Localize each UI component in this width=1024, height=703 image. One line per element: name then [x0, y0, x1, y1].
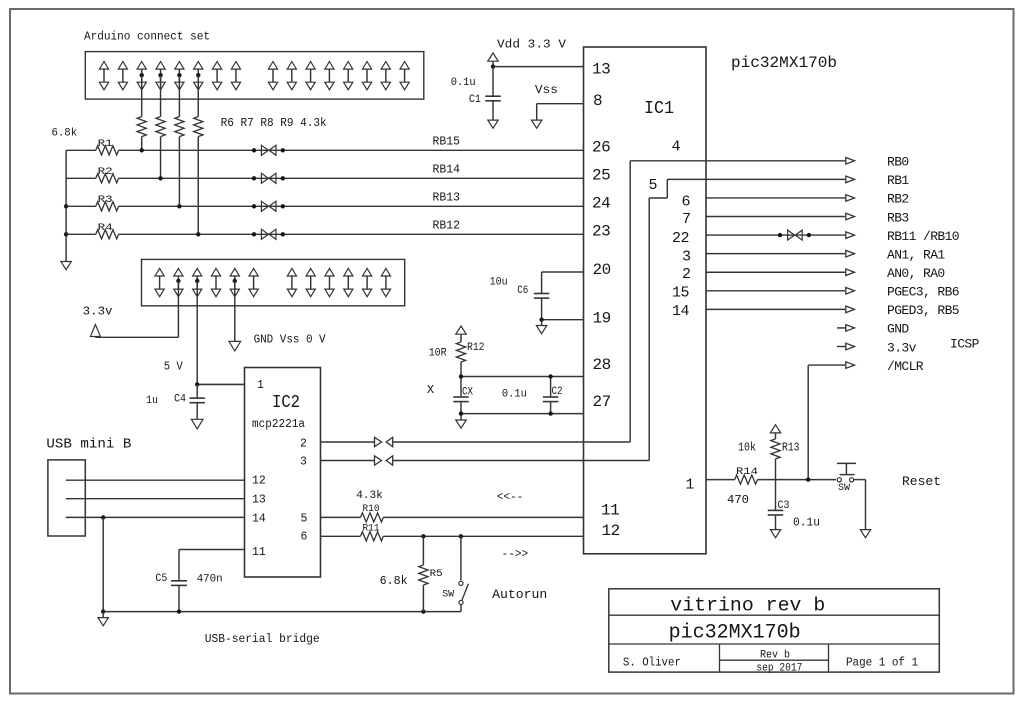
wire net PGEC3, RB6 [706, 290, 845, 292]
ground symbol below reset switch [860, 530, 870, 538]
label 470 (R14 value) [727, 494, 749, 507]
wire row RB14 to IC1 [119, 177, 584, 179]
label IC2 [272, 393, 300, 413]
svg-text:5 V: 5 V [164, 360, 184, 374]
junction node Vdd/C1 [491, 64, 495, 68]
connector J1 Arduino header box [85, 52, 424, 100]
wire IC1 pin 20 [542, 271, 584, 273]
net arrow PGEC3, RB6 [846, 287, 855, 294]
svg-text:Rev b: Rev b [760, 649, 790, 661]
svg-text:19: 19 [593, 310, 611, 328]
label C3 [778, 500, 790, 512]
title text Page 1 of 1 [846, 655, 918, 669]
label R13 [782, 442, 800, 455]
label ICSP [950, 337, 980, 352]
svg-text:3: 3 [682, 248, 691, 265]
wire left vertical bus [65, 150, 67, 261]
ground symbol below C1 [488, 120, 498, 128]
svg-text:SW: SW [838, 483, 850, 494]
wire J2 pin5 to ground [234, 281, 236, 342]
junction dot USB ground [101, 515, 105, 519]
wire net AN1, RA1 [706, 253, 845, 255]
svg-text:12: 12 [252, 475, 266, 488]
svg-text:13: 13 [252, 494, 266, 507]
ESD diode pair on RB12 row [252, 229, 285, 239]
label USB-serial bridge [205, 632, 320, 646]
ground symbol below pin 19 [536, 320, 546, 334]
label 470n (C5 value) [197, 574, 223, 586]
IC IC1 pic32 body [584, 47, 707, 554]
svg-text:Vss: Vss [535, 83, 558, 97]
label IC1 [644, 99, 674, 119]
svg-text:RB15: RB15 [433, 135, 461, 148]
resistor R4 horizontal [66, 222, 119, 239]
net arrow RB2 [846, 195, 855, 202]
resistor R5 6.8k vertical [419, 536, 428, 611]
junction dots left bus [64, 204, 68, 236]
svg-text:R10: R10 [363, 503, 380, 515]
svg-text:pic32MX170b: pic32MX170b [669, 622, 801, 645]
IC IC2 mcp2221a body [245, 368, 321, 578]
ESD diode pair on RB13 row [252, 201, 285, 211]
svg-text:C1: C1 [469, 94, 481, 106]
resistor R8 4.3k vertical [175, 75, 184, 206]
label pic32MX170b (top) [731, 54, 837, 72]
svg-text:5: 5 [301, 513, 308, 526]
svg-text:/MCLR: /MCLR [887, 359, 924, 374]
net arrow RB1 [846, 176, 855, 183]
wire ground bus [103, 611, 461, 613]
wire net RB11 /RB10 [706, 234, 845, 236]
svg-text:2: 2 [682, 266, 691, 283]
label R6 R7 R8 R9 4.3k [221, 116, 327, 130]
resistor R10 on pin5 line [321, 513, 584, 522]
svg-text:10R: 10R [429, 347, 447, 359]
svg-text:PGED3, RB5: PGED3, RB5 [887, 303, 959, 318]
svg-text:RB11 /RB10: RB11 /RB10 [887, 229, 959, 244]
wire net GND stub [837, 327, 846, 329]
svg-text:R11: R11 [363, 523, 380, 535]
label 10k (R13 value) [738, 442, 756, 455]
svg-text:RB2: RB2 [887, 192, 909, 207]
wire pin 4 vertical to IC2 pin 2 [629, 161, 631, 442]
title text sep 2017 [756, 663, 802, 675]
svg-text:8: 8 [593, 92, 602, 110]
svg-text:470: 470 [727, 494, 749, 507]
svg-text:Reset: Reset [902, 474, 941, 489]
title text pic32MX170b [669, 622, 801, 645]
label Reset [902, 474, 941, 489]
resistor R11 on pin6 line [321, 532, 584, 541]
svg-text:RB3: RB3 [887, 210, 909, 225]
svg-text:6.8k: 6.8k [380, 575, 408, 588]
svg-text:Autorun: Autorun [492, 587, 547, 602]
svg-text:4.3k: 4.3k [356, 490, 383, 502]
svg-text:3.3v: 3.3v [83, 306, 113, 319]
label 10u (C6 value) [490, 276, 508, 288]
resistor R3 horizontal [66, 194, 119, 211]
wire J2 pin2 to 3.3v arrow [95, 281, 178, 337]
label Arduino connect set [84, 30, 210, 44]
svg-text:sep 2017: sep 2017 [756, 663, 802, 675]
svg-text:24: 24 [592, 195, 610, 213]
svg-text:0.1u: 0.1u [793, 517, 820, 530]
resistor R7 4.3k vertical [156, 75, 165, 178]
svg-text:R2: R2 [98, 166, 113, 178]
net label AN1, RA1 [887, 247, 945, 262]
label C2 [552, 386, 563, 398]
svg-text:mcp2221a: mcp2221a [252, 418, 305, 431]
svg-text:10k: 10k [738, 442, 756, 455]
ground symbol below CX [456, 414, 466, 429]
svg-text:0.1u: 0.1u [451, 77, 476, 89]
wire IC2 pin 3 to IC1 pin 5 [321, 460, 650, 462]
label 6.8k (R5 value) [380, 575, 408, 588]
net arrow RB0 [846, 158, 855, 165]
label Vss [535, 83, 558, 97]
svg-text:4: 4 [672, 139, 681, 156]
net label RB0 [887, 155, 909, 170]
svg-text:pic32MX170b: pic32MX170b [731, 54, 837, 72]
label 0.1u (C3 value) [793, 517, 820, 530]
svg-text:S. Oliver: S. Oliver [623, 655, 681, 669]
svg-text:11: 11 [252, 546, 266, 559]
net label RB14 [433, 163, 461, 176]
wire net PGED3, RB5 [706, 308, 845, 310]
ESD diode pair on RB14 row [252, 173, 285, 183]
svg-text:vitrino rev b: vitrino rev b [670, 595, 825, 617]
svg-text:GND: GND [887, 322, 909, 337]
net arrow PGED3, RB5 [846, 306, 855, 313]
wire net 3.3v stub [837, 346, 846, 348]
svg-text:IC2: IC2 [272, 393, 300, 413]
svg-text:11: 11 [601, 502, 619, 520]
capacitor C4 1u [189, 384, 205, 419]
svg-text:26: 26 [592, 139, 610, 157]
svg-text:USB-serial bridge: USB-serial bridge [205, 632, 320, 646]
label SW (autorun) [442, 589, 454, 600]
resistor R9 4.3k vertical [194, 75, 203, 234]
label 5 V [164, 360, 184, 374]
wire row RB15 to IC1 [119, 149, 584, 151]
wire IC1 pin 8 to Vss ground [537, 104, 584, 120]
svg-text:6: 6 [301, 531, 308, 544]
svg-text:3: 3 [300, 456, 307, 469]
label 4.3k (R10/R11 value) [356, 490, 383, 502]
junction dot R9 to row [196, 232, 200, 236]
net label 3.3v [887, 340, 917, 355]
wire reset switch to ground [854, 480, 866, 530]
svg-text:5: 5 [649, 177, 658, 194]
junction dot R8 to row [177, 204, 181, 208]
title text vitrino rev b [670, 595, 825, 617]
ground symbol Vss [532, 120, 542, 128]
net label /MCLR [887, 359, 924, 374]
capacitor C1 0.1u [485, 67, 501, 121]
junction dots pins 28/27 wires [459, 374, 553, 416]
svg-text:14: 14 [252, 513, 266, 526]
net arrow /MCLR [846, 362, 855, 369]
svg-text:R4: R4 [98, 222, 113, 234]
wire IC1 pin 28 [461, 376, 584, 378]
label R12 [467, 342, 485, 354]
net label PGEC3, RB6 [887, 285, 959, 300]
label R10 [363, 503, 380, 515]
svg-text:6: 6 [682, 194, 691, 211]
net arrow GND [846, 325, 855, 332]
net label PGED3, RB5 [887, 303, 959, 318]
label C5 [155, 573, 167, 585]
wire IC2 pin 11 to C5 [179, 550, 245, 581]
svg-text:R3: R3 [98, 194, 113, 206]
junction dot R6 to row [140, 148, 144, 152]
svg-text:20: 20 [593, 261, 611, 279]
svg-text:Vdd 3.3 V: Vdd 3.3 V [497, 37, 567, 51]
svg-text:R6 R7 R8 R9 4.3k: R6 R7 R8 R9 4.3k [221, 116, 327, 130]
wire IC1 pin 1 to R14 [706, 479, 735, 481]
connector J1 pins (bidirectional arrows) [99, 62, 409, 90]
resistor R6 4.3k vertical [137, 75, 146, 150]
net arrow 3.3v [846, 343, 855, 350]
label CX [462, 386, 473, 398]
label 0.1u (C1 value) [451, 77, 476, 89]
svg-text:1: 1 [257, 379, 264, 392]
net label RB11 /RB10 [887, 229, 959, 244]
capacitor C3 0.1u [768, 480, 784, 530]
svg-text:470n: 470n [197, 574, 223, 586]
junction dots pin6 line [421, 534, 463, 538]
wire IC1 pin 27 [461, 413, 584, 415]
wire net AN0, RA0 [706, 271, 845, 273]
label SW (reset) [838, 483, 850, 494]
svg-text:C6: C6 [517, 285, 528, 297]
svg-text:SW: SW [442, 589, 454, 600]
net label GND [887, 322, 909, 337]
svg-text:R12: R12 [467, 342, 485, 354]
net label RB15 [433, 135, 461, 148]
svg-text:<<--: <<-- [497, 490, 524, 504]
junction dots ground bus [101, 609, 426, 613]
svg-text:13: 13 [592, 61, 610, 79]
label USB mini B [46, 436, 131, 452]
svg-text:C5: C5 [155, 573, 167, 585]
wire to autorun switch [460, 536, 462, 580]
svg-text:Arduino connect set: Arduino connect set [84, 30, 210, 44]
net label AN0, RA0 [887, 266, 945, 281]
label 6.8k (R1-R4 value) [52, 128, 78, 140]
wire IC1 pin 19 [542, 319, 584, 321]
IC1 left pin numbers [592, 61, 620, 540]
svg-text:7: 7 [682, 211, 691, 228]
ground symbol GND Vss [229, 341, 241, 351]
label Autorun [492, 587, 547, 602]
resistor R1 horizontal [66, 138, 119, 155]
svg-text:IC1: IC1 [644, 99, 674, 119]
capacitor CX [453, 377, 469, 414]
ground symbol below C4 [191, 419, 203, 429]
net label RB3 [887, 210, 909, 225]
ground symbol left bus [61, 262, 71, 270]
wire USB GND to IC2 pin 14 [66, 516, 245, 518]
net label RB1 [887, 173, 909, 188]
resistor R2 horizontal [66, 166, 119, 183]
svg-text:C3: C3 [778, 500, 790, 512]
svg-text:-->>: -->> [502, 547, 528, 561]
junction dots on J2 pins 2,3,5 [176, 279, 237, 283]
switch SW autorun [459, 581, 469, 611]
net arrow RB11 /RB10 [846, 232, 855, 239]
resistor R13 10k vertical [770, 425, 780, 480]
svg-text:R1: R1 [98, 138, 113, 150]
svg-text:RB14: RB14 [433, 163, 461, 176]
data direction arrows pin 2 line [375, 437, 393, 446]
svg-text:RB12: RB12 [433, 219, 461, 232]
svg-text:AN0, RA0: AN0, RA0 [887, 266, 945, 281]
net label RB12 [433, 219, 461, 232]
ESD diode pair on RB11 row [778, 230, 811, 240]
resistor R14 470 [735, 475, 836, 484]
net arrow AN1, RA1 [846, 250, 855, 257]
svg-text:X: X [427, 383, 434, 397]
wire net /MCLR [808, 365, 845, 480]
net arrow AN0, RA0 [846, 269, 855, 276]
svg-text:25: 25 [592, 167, 610, 185]
label 3.3v [83, 306, 113, 319]
title text S. Oliver [623, 655, 681, 669]
connector J2 header box [142, 259, 405, 305]
label 10R (R12 value) [429, 347, 447, 359]
wire net RB2 [706, 197, 845, 199]
svg-text:Page 1 of 1: Page 1 of 1 [846, 655, 918, 669]
wire row RB13 to IC1 [119, 205, 584, 207]
label 1u (C4 value) [146, 395, 158, 407]
svg-text:ICSP: ICSP [950, 337, 980, 352]
net label RB13 [433, 191, 461, 204]
junction dots on J1 pins 3-6 [140, 73, 201, 77]
junction node MCLR [806, 477, 810, 481]
switch SW reset pushbutton [837, 463, 856, 482]
wire USB D+ to IC2 pin 12 [66, 479, 245, 481]
junction node 5V/C4 [195, 382, 199, 386]
svg-text:0.1u: 0.1u [502, 389, 527, 401]
svg-text:1u: 1u [146, 395, 158, 407]
svg-text:AN1, RA1: AN1, RA1 [887, 247, 945, 262]
svg-text:RB1: RB1 [887, 173, 909, 188]
label R5 [430, 568, 443, 580]
capacitor C2 [543, 377, 559, 414]
svg-text:23: 23 [592, 223, 610, 241]
label C4 [174, 394, 186, 406]
svg-text:PGEC3, RB6: PGEC3, RB6 [887, 285, 959, 300]
data direction arrows pin 3 line [375, 456, 393, 465]
ground symbol below C3 [770, 530, 780, 538]
title text Rev b [760, 649, 790, 661]
svg-text:RB13: RB13 [433, 191, 461, 204]
svg-text:R14: R14 [736, 466, 758, 478]
wire Vdd to IC1 pin 13 [493, 66, 584, 68]
label C6 [517, 285, 528, 297]
label Vdd 3.3 V [497, 37, 567, 51]
svg-text:USB mini B: USB mini B [46, 436, 131, 452]
connector J2 pins (bidirectional arrows) [155, 268, 391, 296]
svg-text:R13: R13 [782, 442, 800, 455]
wire USB D- to IC2 pin 13 [66, 498, 245, 500]
svg-text:2: 2 [300, 438, 307, 451]
label GND Vss 0 V [254, 332, 327, 346]
svg-text:6.8k: 6.8k [52, 128, 78, 140]
svg-text:CX: CX [462, 386, 473, 398]
IC2 pin numbers [252, 379, 308, 559]
label <<-- [497, 490, 524, 504]
wire J2 pin3 5V rail to IC2 pin 1 [197, 281, 244, 385]
label R14 [736, 466, 758, 478]
svg-text:27: 27 [593, 393, 611, 411]
net label RB2 [887, 192, 909, 207]
svg-text:C2: C2 [552, 386, 563, 398]
svg-text:28: 28 [593, 356, 611, 374]
svg-text:12: 12 [602, 522, 620, 540]
net arrow RB3 [846, 213, 855, 220]
capacitor C5 470n [171, 581, 187, 612]
power arrow Vdd [488, 53, 498, 67]
svg-text:C4: C4 [174, 394, 186, 406]
ground symbol bus left end [98, 612, 108, 626]
svg-text:15: 15 [672, 285, 690, 302]
wire IC2 pin 2 to IC1 pin 4 [321, 441, 631, 443]
label 0.1u (C2 value) [502, 389, 527, 401]
label R11 [363, 523, 380, 535]
title block [609, 589, 940, 672]
label C1 [469, 94, 481, 106]
svg-text:14: 14 [672, 303, 690, 320]
svg-text:10u: 10u [490, 276, 508, 288]
ESD diode pair on RB15 row [252, 145, 285, 155]
svg-text:R5: R5 [430, 568, 443, 580]
wire net RB0 from pin 4 [630, 160, 845, 162]
capacitor C6 10u [534, 272, 550, 320]
label X (crystal) [427, 383, 434, 397]
wire pin 5 step to IC2 pin 3 [649, 179, 667, 460]
junction dot C6/pin19 [539, 318, 543, 322]
junction dot R7 to row [158, 176, 162, 180]
svg-text:GND Vss 0 V: GND Vss 0 V [254, 332, 327, 346]
wire USB ground drop [102, 517, 104, 611]
IC1 right pin numbers [649, 139, 695, 494]
svg-text:22: 22 [672, 230, 689, 247]
power arrow 3.3v [90, 325, 100, 338]
connector USB mini B body [48, 460, 85, 536]
svg-text:3.3v: 3.3v [887, 340, 917, 355]
wire row RB12 to IC1 [119, 233, 584, 235]
wire net RB1 from pin 5 [667, 178, 845, 180]
resistor R12 10R vertical [456, 326, 466, 377]
label mcp2221a [252, 418, 305, 431]
wire net RB3 [706, 216, 845, 218]
svg-text:1: 1 [685, 477, 694, 494]
svg-text:RB0: RB0 [887, 155, 909, 170]
